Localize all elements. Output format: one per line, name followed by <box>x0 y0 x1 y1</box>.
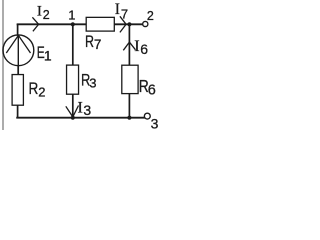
svg-text:I: I <box>134 38 139 55</box>
svg-text:3: 3 <box>151 116 159 132</box>
svg-text:3: 3 <box>83 102 91 118</box>
svg-text:7: 7 <box>94 37 102 52</box>
svg-text:3: 3 <box>89 75 96 90</box>
svg-text:R: R <box>85 33 94 51</box>
svg-text:R: R <box>29 79 39 98</box>
svg-text:2: 2 <box>43 8 50 22</box>
svg-text:1: 1 <box>68 8 75 23</box>
svg-text:7: 7 <box>121 7 128 22</box>
svg-text:I: I <box>115 1 120 18</box>
svg-text:1: 1 <box>44 48 52 64</box>
svg-text:6: 6 <box>140 41 148 57</box>
svg-text:I: I <box>37 4 42 20</box>
svg-text:2: 2 <box>38 85 45 100</box>
svg-text:2: 2 <box>147 9 154 23</box>
svg-text:I: I <box>78 100 83 117</box>
svg-text:6: 6 <box>148 83 156 99</box>
